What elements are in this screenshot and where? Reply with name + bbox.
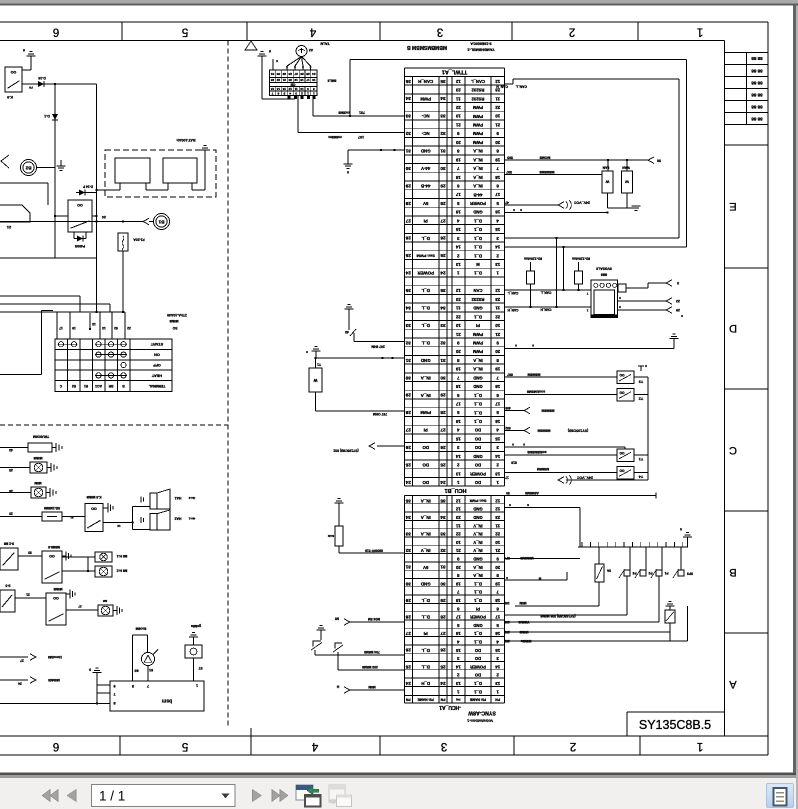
svg-text:B: B — [729, 566, 736, 578]
svg-text:29: 29 — [440, 598, 446, 603]
svg-text:NC-: NC- — [421, 131, 429, 136]
svg-text:29: 29 — [440, 393, 446, 398]
svg-text:IN_A: IN_A — [420, 532, 431, 537]
svg-text:DO: DO — [474, 673, 481, 678]
svg-text:5V: 5V — [423, 201, 428, 206]
svg-text:29: 29 — [405, 183, 411, 188]
svg-text:M8M: M8M — [519, 601, 526, 605]
svg-text:26: 26 — [405, 648, 411, 653]
svg-text:35: 35 — [405, 288, 411, 293]
svg-text:26: 26 — [405, 236, 411, 241]
svg-text:DO: DO — [422, 445, 429, 450]
svg-text:21: 21 — [6, 225, 11, 230]
svg-text:31: 31 — [405, 565, 411, 570]
svg-text:62: 62 — [114, 326, 118, 330]
svg-text:28: 28 — [405, 614, 411, 619]
svg-text:33: 33 — [405, 323, 411, 328]
svg-text:DO: DO — [474, 648, 481, 653]
svg-text:3: 3 — [441, 740, 447, 752]
svg-text:RS232: RS232 — [471, 297, 484, 302]
svg-text:PN: PN — [440, 697, 445, 701]
svg-text:6: 6 — [23, 48, 25, 52]
svg-text:M8M8: M8M8 — [169, 319, 178, 323]
svg-text:D_L: D_L — [421, 615, 430, 620]
svg-text:25: 25 — [440, 253, 446, 258]
svg-text:20: 20 — [455, 349, 460, 354]
svg-text:13: 13 — [455, 471, 460, 476]
svg-text:17: 17 — [59, 326, 63, 330]
svg-text:21: 21 — [495, 548, 500, 553]
svg-text:10: 10 — [495, 323, 500, 328]
svg-text:PN: PN — [495, 697, 500, 701]
svg-text:14: 14 — [495, 454, 500, 459]
svg-text:0: 0 — [680, 527, 682, 531]
svg-text:D_L: D_L — [421, 340, 430, 345]
svg-text:13: 13 — [455, 262, 460, 267]
svg-text:16: 16 — [495, 419, 500, 424]
svg-text:44-B: 44-B — [473, 192, 482, 197]
svg-text:3: 3 — [295, 91, 297, 95]
svg-text:21: 21 — [455, 548, 460, 553]
svg-text:D_L: D_L — [421, 236, 430, 241]
svg-text:28: 28 — [405, 201, 411, 206]
svg-text:10: 10 — [455, 323, 460, 328]
svg-text:57: 57 — [198, 666, 202, 670]
svg-text:GND: GND — [473, 210, 482, 215]
svg-text:SAR: SAR — [327, 534, 334, 538]
svg-text:15: 15 — [495, 436, 500, 441]
svg-text:POWER: POWER — [470, 664, 486, 669]
svg-text:30: 30 — [405, 581, 411, 586]
svg-text:19: 19 — [455, 581, 460, 586]
svg-text:D_1: D_1 — [473, 227, 481, 232]
svg-text:15: 15 — [455, 227, 460, 232]
svg-text:D_1: D_1 — [473, 410, 481, 415]
svg-text:24: 24 — [18, 682, 22, 686]
svg-text:CAN_L: CAN_L — [541, 291, 552, 295]
svg-text:DO: DO — [474, 463, 481, 468]
svg-text:24: 24 — [440, 271, 446, 276]
svg-text:6: 6 — [53, 740, 59, 752]
svg-text:88 88: 88 88 — [751, 116, 763, 121]
svg-text:11: 11 — [455, 96, 460, 101]
svg-text:29: 29 — [676, 308, 680, 312]
svg-text:787 OHM: 787 OHM — [373, 412, 387, 416]
svg-text:IN_V: IN_V — [473, 540, 483, 545]
svg-text:S-2 M8: S-2 M8 — [4, 542, 15, 546]
svg-text:IN_A: IN_A — [420, 375, 431, 380]
svg-text:IN_V: IN_V — [473, 523, 483, 528]
svg-text:PWM: PWM — [472, 341, 483, 346]
svg-text:22: 22 — [455, 105, 460, 110]
svg-text:34: 34 — [440, 306, 446, 311]
svg-text:15: 15 — [455, 436, 460, 441]
svg-text:50: 50 — [506, 491, 510, 495]
svg-text:M8: M8 — [103, 599, 107, 603]
svg-text:M8M8M: M8M8M — [538, 429, 551, 433]
svg-text:27: 27 — [405, 631, 411, 636]
svg-text:M8M: M8M — [34, 481, 41, 485]
svg-text:14: 14 — [455, 245, 460, 250]
svg-text:11: 11 — [495, 96, 500, 101]
svg-text:12: 12 — [455, 507, 460, 512]
svg-text:IN_A: IN_A — [473, 358, 483, 363]
svg-text:K-9: K-9 — [7, 95, 13, 99]
svg-text:23: 23 — [271, 78, 275, 82]
svg-text:ACC: ACC — [94, 384, 102, 388]
svg-text:32: 32 — [440, 340, 446, 345]
svg-text:LAN: LAN — [602, 166, 609, 170]
svg-text:28: 28 — [9, 489, 13, 493]
svg-text:A6M8M8: A6M8M8 — [525, 491, 539, 495]
svg-text:P3: P3 — [632, 571, 636, 575]
svg-text:8M8: 8M8 — [601, 273, 607, 277]
svg-text:OO: OO — [619, 468, 624, 472]
svg-text:33: 33 — [440, 114, 446, 119]
svg-text:22: 22 — [276, 78, 280, 82]
svg-text:DO: DO — [474, 436, 481, 441]
svg-text:R2: R2 — [72, 384, 76, 388]
svg-text:M8 H-1: M8 H-1 — [117, 554, 128, 558]
svg-text:PWM: PWM — [420, 96, 431, 101]
svg-text:HEAT: HEAT — [151, 373, 162, 377]
svg-text:0: 0 — [347, 170, 349, 174]
svg-text:33: 33 — [440, 531, 446, 536]
svg-text:23: 23 — [455, 88, 460, 93]
svg-text:28: 28 — [405, 410, 411, 415]
svg-text:2: 2 — [569, 25, 575, 37]
svg-text:18: 18 — [455, 384, 460, 389]
svg-text:34: 34 — [405, 515, 411, 520]
svg-text:13: 13 — [92, 322, 96, 326]
svg-text:19: 19 — [455, 157, 460, 162]
svg-text:IN_A: IN_A — [473, 166, 483, 171]
svg-text:D_L: D_L — [421, 306, 430, 311]
svg-text:M8M8M8: M8M8M8 — [540, 170, 555, 174]
svg-text:M8M8M8: M8M8M8 — [520, 556, 534, 560]
svg-text:23: 23 — [455, 297, 460, 302]
svg-text:IN_A: IN_A — [473, 184, 483, 189]
svg-text:17: 17 — [306, 78, 310, 82]
svg-text:HA2: HA2 — [175, 517, 182, 521]
svg-text:26: 26 — [440, 236, 446, 241]
svg-text:GND: GND — [473, 375, 482, 380]
svg-text:M8M8-6: M8M8-6 — [48, 545, 60, 549]
svg-text:-HCU_A1: -HCU_A1 — [439, 704, 461, 710]
svg-text:24: 24 — [405, 681, 411, 686]
svg-text:34: 34 — [405, 306, 411, 311]
svg-text:TERMINAL: TERMINAL — [149, 384, 166, 388]
svg-text:103: 103 — [504, 620, 510, 624]
svg-text:IN_V: IN_V — [473, 548, 483, 553]
svg-text:207 8HM: 207 8HM — [371, 344, 385, 348]
svg-text:PN: PN — [456, 698, 460, 702]
svg-text:19: 19 — [72, 326, 76, 330]
svg-text:PWM: PWM — [472, 114, 483, 119]
svg-text:10: 10 — [495, 540, 500, 545]
svg-text:11: 11 — [495, 523, 500, 528]
svg-text:D_1: D_1 — [473, 639, 481, 644]
svg-text:IN_A: IN_A — [473, 565, 483, 570]
svg-text:K-5 M8M8: K-5 M8M8 — [86, 495, 101, 499]
svg-text:26: 26 — [405, 445, 411, 450]
svg-text:CAN_L: CAN_L — [516, 85, 527, 89]
svg-text:PI: PI — [424, 218, 428, 223]
svg-text:D-19: D-19 — [38, 76, 45, 80]
svg-text:D-1: D-1 — [44, 114, 50, 118]
svg-text:22: 22 — [495, 532, 500, 537]
svg-text:17: 17 — [495, 615, 500, 620]
svg-text:26: 26 — [440, 648, 446, 653]
svg-text:731: 731 — [359, 111, 365, 115]
svg-text:28: 28 — [440, 201, 446, 206]
svg-text:20: 20 — [455, 140, 460, 145]
svg-text:CAN_H: CAN_H — [496, 85, 508, 89]
svg-text:30: 30 — [405, 375, 411, 380]
svg-text:D-14 P: D-14 P — [82, 185, 93, 189]
svg-text:m8M8m: m8M8m — [328, 135, 341, 139]
svg-text:D_1: D_1 — [473, 271, 481, 276]
svg-text:OO: OO — [49, 554, 55, 558]
svg-text:soM8M8M8: soM8M8M8 — [527, 450, 546, 454]
svg-text:18: 18 — [495, 175, 500, 180]
svg-text:35: 35 — [405, 79, 411, 84]
svg-text:21: 21 — [455, 122, 460, 127]
svg-text:10: 10 — [455, 114, 460, 119]
svg-text:D_1: D_1 — [473, 590, 481, 595]
svg-text:D_1: D_1 — [473, 236, 481, 241]
svg-text:292: 292 — [504, 639, 510, 643]
svg-text:16: 16 — [495, 631, 500, 636]
svg-text:Votrafodbrm-1: Votrafodbrm-1 — [467, 719, 493, 723]
svg-text:M04 5M: M04 5M — [368, 617, 380, 621]
svg-text:8no8M: 8no8M — [135, 627, 146, 631]
svg-text:DO: DO — [474, 428, 481, 433]
svg-text:PWM: PWM — [472, 140, 483, 145]
svg-text:4: 4 — [289, 91, 291, 95]
svg-text:MBMBMSMBM B: MBMBMSMBM B — [407, 44, 447, 50]
svg-text:DO: DO — [474, 445, 481, 450]
svg-text:2: 2 — [301, 91, 303, 95]
svg-text:1brodM8: 1brodM8 — [48, 655, 62, 659]
svg-text:27: 27 — [405, 218, 411, 223]
svg-text:IN_A: IN_A — [473, 367, 483, 372]
svg-text:(SY135C8B) 509 M8M8: (SY135C8B) 509 M8M8 — [540, 614, 575, 618]
svg-text:20: 20 — [495, 140, 500, 145]
svg-text:(SY135C8B): (SY135C8B) — [567, 429, 588, 433]
svg-text:F5: F5 — [29, 86, 33, 90]
svg-text:29: 29 — [440, 183, 446, 188]
svg-text:START: START — [150, 342, 163, 346]
svg-text:27: 27 — [20, 659, 24, 663]
svg-text:33: 33 — [405, 114, 411, 119]
svg-text:PI: PI — [476, 323, 480, 328]
svg-text:5: 5 — [182, 25, 188, 37]
svg-text:19: 19 — [455, 367, 460, 372]
svg-text:0: 0 — [89, 668, 91, 672]
svg-text:32: 32 — [440, 548, 446, 553]
svg-text:26: 26 — [300, 72, 304, 76]
svg-text:IN_A: IN_A — [473, 157, 483, 162]
svg-text:PWM: PWM — [472, 122, 483, 127]
svg-text:30: 30 — [440, 166, 446, 171]
svg-text:D_1: D_1 — [473, 314, 481, 319]
svg-text:19: 19 — [495, 367, 500, 372]
svg-text:27: 27 — [440, 218, 446, 223]
svg-text:GND: GND — [473, 384, 482, 389]
svg-text:3-18E8B01A: 3-18E8B01A — [470, 42, 492, 46]
svg-text:10: 10 — [455, 540, 460, 545]
svg-text:SB-1M8M8: SB-1M8M8 — [44, 506, 60, 510]
svg-text:M: M — [476, 262, 480, 267]
svg-text:BR: BR — [108, 384, 113, 388]
svg-text:12: 12 — [455, 288, 460, 293]
svg-text:11: 11 — [495, 306, 500, 311]
svg-text:IN_A: IN_A — [473, 175, 483, 180]
svg-text:IN_A: IN_A — [473, 573, 483, 578]
svg-text:88 88: 88 88 — [751, 80, 763, 85]
svg-text:26: 26 — [440, 445, 446, 450]
svg-text:6: 6 — [269, 49, 271, 53]
svg-text:D_L: D_L — [421, 323, 430, 328]
svg-text:D_1: D_1 — [473, 419, 481, 424]
svg-text:1: 1 — [307, 91, 309, 95]
svg-text:W: W — [313, 378, 317, 383]
svg-text:TRU8O8M: TRU8O8M — [33, 435, 49, 439]
svg-text:24V_VCC: 24V_VCC — [577, 476, 593, 480]
svg-text:6: 6 — [277, 91, 279, 95]
svg-text:505: 505 — [507, 155, 513, 159]
svg-text:15: 15 — [495, 227, 500, 232]
svg-text:31: 31 — [405, 149, 411, 154]
svg-text:SP3: SP3 — [687, 572, 693, 576]
svg-text:4: 4 — [309, 25, 316, 37]
svg-text:30: 30 — [405, 166, 411, 171]
svg-text:8800FF 516: 8800FF 516 — [365, 548, 383, 552]
svg-text:1: 1 — [697, 740, 703, 752]
svg-text:27: 27 — [78, 605, 82, 609]
svg-text:(SY135C8B) 602: (SY135C8B) 602 — [333, 449, 358, 453]
svg-text:GND: GND — [473, 515, 482, 520]
svg-text:16: 16 — [455, 210, 460, 215]
svg-text:35: 35 — [440, 288, 446, 293]
svg-text:HCU_B1: HCU_B1 — [444, 487, 466, 493]
svg-text:50: 50 — [657, 158, 661, 162]
svg-text:25: 25 — [440, 664, 446, 669]
svg-text:Y3: Y3 — [639, 379, 643, 383]
svg-text:24: 24 — [405, 271, 411, 276]
svg-text:M8M: M8M — [368, 685, 376, 689]
svg-text:12: 12 — [117, 524, 121, 528]
svg-text:22: 22 — [495, 105, 500, 110]
svg-text:GND: GND — [473, 507, 482, 512]
svg-text:25: 25 — [405, 664, 411, 669]
svg-text:R1: R1 — [84, 384, 88, 388]
svg-text:22: 22 — [455, 314, 460, 319]
svg-text:19: 19 — [495, 157, 500, 162]
svg-text:8ML8: 8ML8 — [328, 79, 337, 83]
svg-text:10: 10 — [495, 114, 500, 119]
svg-text:IN_A: IN_A — [420, 515, 431, 520]
svg-text:Y1: Y1 — [639, 457, 643, 461]
svg-text:23: 23 — [495, 297, 500, 302]
svg-text:YAMBHBMBL-2: YAMBHBMBL-2 — [467, 48, 494, 52]
svg-text:21: 21 — [282, 78, 286, 82]
svg-text:106: 106 — [504, 601, 510, 605]
svg-text:6: 6 — [53, 25, 59, 37]
svg-text:34: 34 — [440, 96, 446, 101]
svg-text:203: 203 — [504, 630, 510, 634]
svg-text:1: 1 — [313, 91, 315, 95]
svg-text:406: 406 — [505, 406, 511, 410]
svg-text:43: 43 — [9, 448, 13, 452]
svg-text:27: 27 — [294, 72, 298, 76]
svg-text:24: 24 — [102, 215, 106, 219]
svg-text:18: 18 — [455, 598, 460, 603]
svg-text:PWM: PWM — [420, 410, 431, 415]
svg-text:44-V: 44-V — [421, 166, 430, 171]
svg-text:PWM: PWM — [472, 349, 483, 354]
svg-text:OO: OO — [53, 596, 59, 600]
svg-text:88 88: 88 88 — [751, 68, 763, 73]
svg-text:SP9: SP9 — [504, 556, 510, 560]
svg-text:5: 5 — [283, 91, 285, 95]
svg-text:P1: P1 — [664, 571, 668, 575]
svg-text:15: 15 — [455, 648, 460, 653]
svg-text:SO: SO — [172, 326, 177, 330]
svg-text:Y4: Y4 — [639, 475, 643, 479]
svg-text:POWER: POWER — [470, 615, 486, 620]
svg-text:14: 14 — [455, 664, 460, 669]
svg-text:S-5: S-5 — [5, 584, 10, 588]
svg-text:35: 35 — [440, 498, 446, 503]
svg-text:22: 22 — [455, 532, 460, 537]
svg-text:31: 31 — [440, 358, 446, 363]
svg-text:IN_A: IN_A — [473, 149, 483, 154]
svg-text:12: 12 — [288, 87, 292, 91]
svg-text:607: 607 — [507, 373, 513, 377]
svg-text:F1-20A: F1-20A — [133, 238, 145, 242]
svg-text:M8M8c: M8M8c — [520, 639, 531, 643]
svg-text:17: 17 — [495, 402, 500, 407]
svg-text:D_L: D_L — [421, 288, 430, 293]
svg-text:OO: OO — [11, 70, 17, 74]
svg-text:22: 22 — [676, 299, 680, 303]
svg-text:D_L: D_L — [421, 598, 430, 603]
svg-text:M8M8M: M8M8M — [537, 467, 549, 471]
svg-text:14: 14 — [495, 245, 500, 250]
svg-text:704 M8M8: 704 M8M8 — [364, 650, 380, 654]
svg-text:12: 12 — [495, 79, 500, 84]
svg-text:13: 13 — [282, 87, 286, 91]
svg-text:31: 31 — [405, 358, 411, 363]
svg-text:RS232: RS232 — [471, 88, 484, 93]
svg-text:17: 17 — [455, 615, 460, 620]
svg-text:33: 33 — [440, 323, 446, 328]
svg-text:18: 18 — [495, 598, 500, 603]
svg-text:17: 17 — [455, 192, 460, 197]
svg-text:CAN: CAN — [473, 288, 482, 293]
svg-text:4: 4 — [311, 740, 318, 752]
svg-text:31: 31 — [271, 72, 275, 76]
svg-text:3: 3 — [437, 25, 443, 37]
svg-text:23: 23 — [495, 515, 500, 520]
svg-text:31: 31 — [440, 149, 446, 154]
svg-text:61: 61 — [149, 668, 153, 672]
svg-text:32: 32 — [405, 131, 411, 136]
svg-text:IN_A: IN_A — [420, 498, 431, 503]
svg-text:sosbM8M8: sosbM8M8 — [527, 390, 545, 394]
